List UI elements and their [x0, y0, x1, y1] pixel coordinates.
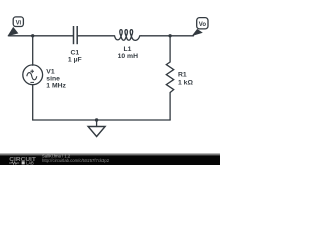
svg-text:C1: C1	[70, 49, 79, 56]
footer logo CircuitLab	[9, 157, 37, 166]
node junction right	[168, 34, 171, 37]
wire left branch lower	[32, 85, 34, 120]
wire top middle segment	[78, 35, 115, 37]
net flag Vi	[7, 17, 23, 36]
voltage source V1	[23, 65, 43, 85]
svg-text:http://circuitlab.com/c/5Sz57f: http://circuitlab.com/c/5Sz57f7ck3p2	[42, 158, 110, 163]
capacitor C1	[74, 26, 78, 44]
wire ground stub	[96, 120, 98, 127]
svg-text:10 mH: 10 mH	[118, 53, 138, 60]
svg-text:1 kΩ: 1 kΩ	[178, 79, 193, 86]
resistor R1	[166, 62, 173, 93]
wire top right segment	[142, 35, 194, 37]
wire bottom	[33, 119, 170, 121]
node junction ground	[95, 118, 98, 121]
node junction left	[31, 34, 34, 37]
svg-text:Vo: Vo	[199, 22, 207, 28]
inductor L1	[115, 30, 142, 41]
net flag Vo	[192, 18, 208, 36]
wire right branch lower	[169, 93, 171, 121]
footer logo squiggle	[9, 162, 19, 165]
wire right branch upper	[169, 36, 171, 62]
svg-text:LAB: LAB	[26, 161, 34, 165]
wire left branch upper	[32, 36, 34, 65]
svg-text:1 MHz: 1 MHz	[46, 83, 66, 90]
svg-text:L1: L1	[124, 46, 132, 53]
svg-text:1 µF: 1 µF	[68, 57, 82, 64]
wire top left segment	[9, 35, 74, 37]
ground	[88, 127, 105, 137]
svg-text:R1: R1	[178, 72, 187, 79]
svg-text:Vi: Vi	[16, 20, 22, 26]
footer logo box	[22, 161, 25, 164]
